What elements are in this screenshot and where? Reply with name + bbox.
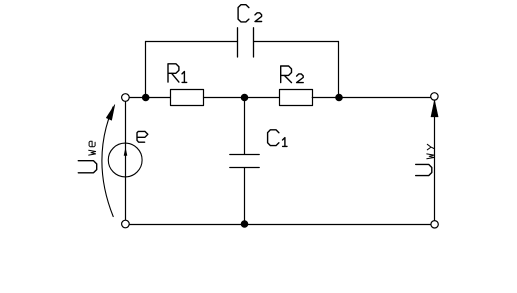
- capacitor C1: [230, 155, 259, 168]
- wire C1 to bottom junction: [244, 168, 246, 224]
- wire top rail: left terminal to R1: [129, 97, 170, 99]
- terminal top-right: [431, 93, 438, 100]
- wire bottom rail: bottom junction to bottom-right terminal: [245, 224, 431, 226]
- arrow U_wy (output voltage arrow): [431, 100, 438, 117]
- label C2: [238, 5, 262, 22]
- junction node 1: [142, 94, 149, 101]
- terminal top-left: [122, 94, 130, 102]
- wire C2 branch left: [146, 41, 238, 43]
- label C1: [268, 130, 287, 147]
- wire bottom rail: left terminal to bottom junction: [129, 224, 244, 226]
- resistor R1: [171, 90, 204, 106]
- label U_we (rotated): [78, 141, 96, 173]
- label U_wy (rotated): [416, 144, 434, 175]
- wire C2 left riser: [145, 42, 147, 98]
- terminal bottom-left: [122, 220, 130, 228]
- junction node 2: [241, 94, 248, 101]
- label R1: [168, 64, 187, 83]
- label e (source): [137, 131, 148, 142]
- voltage source e (circle with up arrow): [108, 143, 142, 177]
- wire top rail: R1 to R2: [204, 97, 280, 99]
- junction node 3: [336, 94, 343, 101]
- arc arrow U_we (input voltage arc): [102, 107, 113, 217]
- wire C2 right riser: [338, 42, 340, 98]
- label R2: [281, 66, 304, 83]
- wire right rail: [434, 101, 436, 221]
- terminal bottom-right: [431, 221, 438, 228]
- capacitor C2: [238, 28, 254, 57]
- resistor R2: [280, 90, 313, 106]
- wire node 2 to C1: [244, 98, 246, 155]
- wire C2 branch right: [254, 41, 339, 43]
- junction node 0: [241, 221, 248, 228]
- wire left rail: [125, 101, 127, 220]
- wire top rail: R2 to top-right terminal: [312, 97, 431, 99]
